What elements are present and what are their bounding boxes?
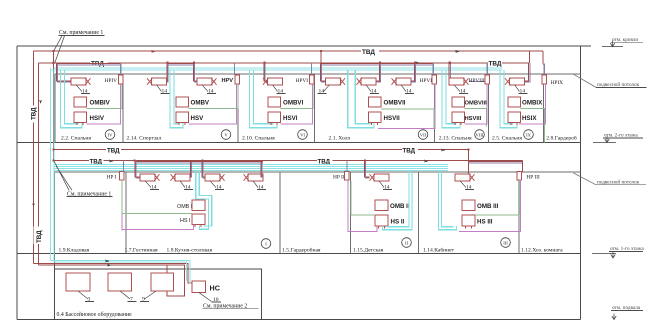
node junction floor1 branch/drop unit I b xyxy=(201,159,203,161)
wire floor-2 room partition IV/V xyxy=(122,74,124,143)
wire floor-2 cyan duct upper xyxy=(54,67,502,69)
wire cyan duct run to HC unit lower xyxy=(54,262,187,281)
node room tag IX xyxy=(524,130,534,140)
wire 2nd floor suspended ceiling line xyxy=(55,73,581,75)
wire TVD floor-1 branch lower segment 1 xyxy=(54,160,89,162)
wire leaders note 1 (top) xyxy=(54,36,65,62)
damper (pos.14) room VII damper 3 xyxy=(396,78,411,85)
wire cyan exhaust duct outer room IX xyxy=(500,70,517,128)
svg-text:OMBV: OMBV xyxy=(191,100,210,107)
svg-text:HP III: HP III xyxy=(526,174,540,180)
wire supply pipe drop room V damper1 xyxy=(165,63,168,81)
node flow arrow basement cyan xyxy=(106,260,111,263)
svg-text:1.5.Гардеробная: 1.5.Гардеробная xyxy=(282,247,321,254)
wire supply pipe drop room VI xyxy=(264,63,268,81)
wire supply drop to damper 4 unit I xyxy=(260,162,262,177)
wire cyan exhaust duct outer room VII xyxy=(348,70,374,128)
heat pipe unit HP III xyxy=(517,172,522,181)
wire HP feed drop HPVII xyxy=(432,63,434,75)
OMB unit box room VI xyxy=(268,97,281,107)
node damper X mark room IV xyxy=(85,78,90,85)
wire underline pos.14 room VII damper 1 xyxy=(318,93,327,95)
node junction branch/drop room V a xyxy=(166,62,168,64)
wire supply pipe drop room V damper2 xyxy=(193,63,197,81)
wire leader to pos.14 room VII damper 1 xyxy=(324,85,330,92)
wire leader to pos.10 xyxy=(199,293,212,302)
OMB unit box room IX xyxy=(508,97,521,107)
svg-text:ОМВ I: ОМВ I xyxy=(177,204,192,210)
wire cyan exhaust duct inner room IV xyxy=(65,70,79,124)
svg-text:2.8.Гардероб: 2.8.Гардероб xyxy=(546,135,577,142)
node elevation arrow floor1 xyxy=(611,252,615,258)
wire cyan exhaust duct inner room VII xyxy=(355,70,370,124)
node junction branch/drop room VIII xyxy=(449,62,451,64)
node flow arrow floor-1 upper branch xyxy=(442,149,447,152)
heat pipe unit HPIX xyxy=(542,75,547,84)
node HS unit legs room IX xyxy=(511,123,517,125)
wire floor-1 room partition 1.15/1.14 xyxy=(417,172,419,254)
wire TVD drop to unit III damper xyxy=(468,150,470,175)
wire floor-1 cyan duct line 3 xyxy=(54,167,448,169)
damper (pos.14) unit III damper xyxy=(455,174,470,181)
wire TVD left riser B (to basement) xyxy=(38,63,40,265)
wire magenta return room VI xyxy=(281,84,313,124)
node HS II legs xyxy=(379,226,385,229)
wire floor-2 room partition IX/wardrobe xyxy=(543,74,545,143)
OMB unit box room VII xyxy=(369,97,382,107)
wire leader to pos.14 room IX xyxy=(515,85,520,92)
wire leader to pos.14 unit I damper 3 xyxy=(210,181,216,188)
svg-text:HSVI: HSVI xyxy=(283,115,298,122)
wire underline suspended ceiling f2 xyxy=(596,86,647,88)
OMB unit box room VIII xyxy=(452,97,465,107)
wire underline pos.14 room IX xyxy=(519,93,528,95)
wire floor-1 room partition 1.9/1.7 xyxy=(125,172,127,254)
node HS unit legs room IV xyxy=(77,123,83,125)
wire cyan duct risers left side xyxy=(51,68,55,262)
svg-text:IX: IX xyxy=(526,132,532,137)
node label gap upper xyxy=(29,106,37,123)
svg-text:НС: НС xyxy=(210,284,220,293)
heat pipe unit HPV xyxy=(235,75,240,84)
node HS unit legs room VII xyxy=(372,123,378,125)
HS unit box room VIII xyxy=(452,112,465,123)
wire building frame left wall xyxy=(16,46,18,320)
heat pipe unit HPIV xyxy=(119,75,124,84)
wire underline pos.7 xyxy=(128,301,137,303)
wire green line room IX xyxy=(521,109,545,143)
wire TVD floor-2 branch duct segment 1 xyxy=(39,62,91,64)
node elevation arrow roof xyxy=(610,41,614,47)
svg-text:HS II: HS II xyxy=(391,218,405,225)
OMB unit box room IV xyxy=(74,97,87,107)
wire magenta return room IX xyxy=(519,84,545,124)
svg-text:2.1. Холл: 2.1. Холл xyxy=(329,136,351,142)
wire green line room VII xyxy=(381,109,434,128)
wire underline see note 2 xyxy=(203,308,259,310)
svg-text:HS III: HS III xyxy=(477,218,493,225)
heat pipe unit HP I xyxy=(119,172,124,181)
svg-text:1.7.Гостинная: 1.7.Гостинная xyxy=(125,248,158,254)
node damper X mark room V damper 2 xyxy=(211,78,216,85)
node flow arrow on riser B xyxy=(39,100,42,104)
wire 1st floor suspended ceiling line xyxy=(55,171,581,173)
wire TVD run to pool plant (loop) xyxy=(39,265,185,296)
node junction branch/drop room VII c xyxy=(414,62,416,64)
damper (pos.14) unit II damper xyxy=(374,174,389,181)
heat pipe unit HP II xyxy=(345,172,350,181)
svg-text:OMBVII: OMBVII xyxy=(384,100,406,107)
node room tag IV xyxy=(105,130,115,140)
damper (pos.14) room VIII xyxy=(449,78,464,85)
wire underline pos.14 room VIII xyxy=(459,93,468,95)
svg-text:HPVIII: HPVIII xyxy=(469,78,485,84)
wire underline pos.14 unit I damper 4 xyxy=(257,189,266,191)
wire underline pos.14 unit I damper 3 xyxy=(215,189,224,191)
node damper X mark room VI xyxy=(263,78,268,85)
damper (pos.14) room V damper 1 xyxy=(152,78,167,85)
svg-text:HS I: HS I xyxy=(180,218,190,224)
wire floor-1 room partition 1.14/1.12 xyxy=(518,172,520,254)
damper (pos.14) room VII damper 2 xyxy=(361,78,376,85)
wire cyan exhaust loop unit II inner xyxy=(386,170,409,226)
node room tag III xyxy=(501,238,511,248)
node junction main duct / drop x321 xyxy=(320,50,322,52)
wire supply drop to damper 2 unit I xyxy=(189,162,191,177)
node damper X mark unit I damper 2 xyxy=(171,174,176,181)
svg-text:1.12.Хоз. комната: 1.12.Хоз. комната xyxy=(521,248,563,254)
wire cyan exhaust loop unit I outer xyxy=(196,170,209,229)
wire condensate/green line room IV xyxy=(87,84,122,108)
node elevation arrow floor2 xyxy=(605,137,609,143)
wire HP feed drop HPVIII xyxy=(486,63,488,75)
svg-text:HSVIII: HSVIII xyxy=(465,116,482,122)
node flow arrow on main duct xyxy=(152,50,157,53)
damper (pos.14) unit I damper 1 xyxy=(140,174,155,181)
wire TVD floor-1 branch upper segment 1 xyxy=(54,149,106,151)
wire supply pipe drop room VII damper1 xyxy=(320,63,325,81)
wire supply pipe header floor-1 right xyxy=(469,161,523,163)
wire basement pool plant room enclosure xyxy=(55,253,262,319)
node junction branch/drop room V b xyxy=(193,62,195,64)
svg-text:HP I: HP I xyxy=(107,174,117,180)
OMB unit box room V xyxy=(176,97,189,107)
wire HP feed drop HPV xyxy=(234,63,236,75)
wire leader to pos.14 room VII damper 3 xyxy=(401,85,406,92)
wire green drop from HP II xyxy=(350,181,352,215)
svg-text:HPIX: HPIX xyxy=(551,80,564,86)
damper (pos.14) room VII damper 1 xyxy=(326,78,341,85)
damper (pos.14) room IX xyxy=(510,78,525,85)
node damper X mark room VIII xyxy=(463,78,468,85)
svg-text:ТВД: ТВД xyxy=(107,147,120,154)
svg-text:OMBIX: OMBIX xyxy=(522,100,543,107)
wire roof level tick line xyxy=(602,46,623,48)
wire TVD drop to HP III xyxy=(521,161,523,173)
wire underline elevation floor2 xyxy=(603,137,643,139)
wire green line unit II xyxy=(351,214,375,216)
node HS unit legs room VIII xyxy=(455,123,461,125)
node damper X mark room VII damper 2 xyxy=(357,78,362,85)
wire leader suspended ceiling f2 xyxy=(574,74,597,87)
wire floor-2 room partition VII/VIII xyxy=(434,74,436,143)
wire floor-1 cyan duct line 2 xyxy=(54,165,448,167)
node room tag V xyxy=(221,130,231,140)
wire leader to pos.3 xyxy=(78,291,88,299)
node flow arrow on main duct right xyxy=(456,50,461,53)
node damper X mark unit I damper 3 xyxy=(219,174,224,181)
svg-text:1.14.Кабинет: 1.14.Кабинет xyxy=(423,247,455,254)
node HS unit legs room VI xyxy=(271,123,277,125)
wire green drop from HP III xyxy=(518,180,520,215)
node room tag VIII xyxy=(475,130,485,140)
HS unit box III xyxy=(462,215,475,226)
wire floor-2 room partition V/VI xyxy=(237,74,239,143)
wire underline pos.14 unit I damper 2 xyxy=(184,189,193,191)
wire building frame top / roof line xyxy=(17,45,591,47)
svg-text:VII: VII xyxy=(420,132,427,137)
wire leader to pos.14 room VI xyxy=(273,85,278,92)
wire cyan exhaust loop unit III inner xyxy=(442,170,454,226)
wire supply drop to damper 1 unit I xyxy=(135,161,140,177)
OMB unit box II xyxy=(375,200,388,211)
wire underline see note 1 (top) xyxy=(59,34,105,36)
wire cyan duct run to HC unit upper xyxy=(51,261,191,284)
pool equipment unit pos.3 xyxy=(66,273,90,291)
damper (pos.14) room VI xyxy=(268,78,283,85)
OMB unit box I xyxy=(192,200,205,211)
svg-text:2.2. Спальня: 2.2. Спальня xyxy=(61,136,91,142)
wire magenta return unit I xyxy=(122,225,194,230)
HS unit box room IX xyxy=(508,112,521,123)
wire floor-2 room partition VI/VII xyxy=(314,74,316,143)
OMB unit box III xyxy=(462,200,475,211)
node damper X mark unit I damper 1 xyxy=(154,174,159,181)
wire supply pipe header room IV xyxy=(57,63,121,65)
wire supply pipe header room VII xyxy=(321,63,433,65)
wire HP feed drop HP I drop xyxy=(123,161,125,172)
wire cyan exhaust duct inner room IX xyxy=(504,70,513,124)
wire leader to pos.14 unit II damper xyxy=(379,181,384,188)
wire underline elevation basement xyxy=(611,310,643,312)
wire underline pos.14 room VII damper 2 xyxy=(370,93,379,95)
node HS III legs xyxy=(466,226,472,229)
node room tag VII xyxy=(418,130,428,140)
HS unit box room IV xyxy=(74,112,87,123)
wire cyan exhaust loop unit II outer xyxy=(383,170,413,229)
wire cyan exhaust duct outer room VI xyxy=(250,70,278,128)
svg-text:HSVII: HSVII xyxy=(384,115,400,122)
wire floor-1 room partition 1.5/1.15 xyxy=(350,172,352,254)
wire leader to pos.14 unit I damper 4 xyxy=(253,181,258,188)
damper (pos.14) room V damper 2 xyxy=(197,78,212,85)
HC unit box xyxy=(192,281,206,293)
wire magenta return room VII xyxy=(378,84,435,128)
wire magenta return room IV xyxy=(87,84,121,124)
wire TVD drop at x=321 xyxy=(320,51,322,63)
wire leader to pos.14 unit I damper 2 xyxy=(180,181,185,188)
wire floor-2 cyan duct lower xyxy=(51,69,503,71)
node flow arrow basement red xyxy=(108,264,113,267)
node junction main duct x54 xyxy=(53,50,55,52)
wire green line room V xyxy=(189,84,238,108)
svg-text:OMB II: OMB II xyxy=(390,203,410,210)
svg-text:2.14. Спортзал: 2.14. Спортзал xyxy=(127,136,162,142)
svg-text:ТВД: ТВД xyxy=(31,107,38,120)
wire cyan exhaust duct inner room VIII xyxy=(446,70,456,124)
node damper X mark unit II damper xyxy=(370,174,375,181)
wire floor2 level tick line xyxy=(593,142,616,144)
wire HP feed drop HP II drop xyxy=(346,161,348,172)
heat pipe unit HPVIII xyxy=(485,75,490,84)
wire underline pos.10 xyxy=(212,301,222,303)
node damper X mark room V damper 1 xyxy=(147,78,152,85)
svg-text:VIII: VIII xyxy=(476,132,484,137)
svg-text:OMB III: OMB III xyxy=(477,203,499,210)
wire cyan exhaust duct outer room V xyxy=(170,70,183,128)
wire cyan exhaust duct outer room IV xyxy=(61,70,83,128)
wire 1st floor slab line xyxy=(17,252,581,254)
wire HP feed drop HPVI xyxy=(311,63,313,75)
wire magenta return room VIII xyxy=(465,84,488,124)
wire cyan exhaust duct inner room V xyxy=(174,70,179,124)
wire supply pipe drop room IV xyxy=(56,63,71,81)
svg-text:2.5. Спальня: 2.5. Спальня xyxy=(492,136,522,142)
wire leader to pos.14 room V damper 1 xyxy=(157,85,162,92)
wire leader to pos.9 xyxy=(145,291,157,299)
wire green line room VIII xyxy=(465,109,487,127)
svg-text:ТВД: ТВД xyxy=(403,147,416,154)
wire leader to pos.14 room VII damper 2 xyxy=(366,85,371,92)
wire floor-1 room partition left xyxy=(54,172,56,254)
node HS unit legs room V xyxy=(179,123,185,125)
wire leader to pos.14 unit I damper 1 xyxy=(145,181,151,188)
wire green drop from HP I xyxy=(121,180,123,214)
wire leader to pos.14 room VIII xyxy=(454,85,460,92)
node room tag VI xyxy=(298,130,308,140)
node flow arrow on floor-2 branch xyxy=(416,61,421,64)
wire cyan exhaust loop unit III outer xyxy=(439,170,457,229)
wire TVD floor-1 branch lower segment 2 xyxy=(104,160,318,162)
wire cyan exhaust duct outer room VIII xyxy=(442,70,460,128)
svg-text:1.9.Кладовая: 1.9.Кладовая xyxy=(59,248,90,254)
wire TVD left riser A (to basement) xyxy=(33,51,35,263)
wire supply pipe to HPIX xyxy=(543,64,544,75)
wire magenta drop unit I xyxy=(121,214,123,231)
svg-text:HSIV: HSIV xyxy=(90,115,105,122)
node junction branch duct x54 xyxy=(53,62,55,64)
node HS I legs xyxy=(195,225,201,227)
wire green line unit III xyxy=(475,214,519,216)
damper (pos.14) room IV xyxy=(71,78,86,85)
wire TVD drop to room IX units xyxy=(529,51,543,64)
pool equipment unit pos.9 xyxy=(151,273,174,291)
node damper X mark room VII damper 3 xyxy=(392,78,397,85)
node room tag I xyxy=(261,239,271,249)
wire TVD floor-2 branch duct segment 3 xyxy=(502,62,529,64)
damper (pos.14) unit I damper 3 xyxy=(205,174,220,181)
wire floor-2 room partition VIII/IX xyxy=(488,74,490,143)
wire TVD run to pool plant (upper) xyxy=(34,263,193,283)
svg-text:0.4 Бассейновое оборудование: 0.4 Бассейновое оборудование xyxy=(57,311,133,318)
svg-text:OMBIV: OMBIV xyxy=(90,100,111,107)
HS unit box room VI xyxy=(268,112,281,123)
wire 2nd floor slab line xyxy=(17,142,581,144)
node junction riser / floor-1 upper branch xyxy=(53,148,55,150)
wire underline pos.9 xyxy=(140,301,149,303)
svg-text:VI: VI xyxy=(300,132,305,137)
wire HP feed drop HPIV xyxy=(120,63,122,75)
svg-text:ТВД: ТВД xyxy=(362,49,375,56)
svg-text:HPIV: HPIV xyxy=(105,78,118,84)
node flow arrow on riser A xyxy=(32,204,35,208)
wire floor-1 cyan duct line 1 xyxy=(54,163,448,165)
wire green line unit I xyxy=(122,213,192,215)
svg-text:OMBVIII: OMBVIII xyxy=(465,101,488,107)
pool equipment unit pos.7 xyxy=(108,273,132,291)
wire underline pos.14 room V damper 2 xyxy=(207,93,216,95)
wire underline elevation floor1 xyxy=(609,251,643,253)
node junction branch/drop room VII b xyxy=(379,62,381,64)
wire leader to pos.14 unit III damper xyxy=(460,181,466,188)
wire leader to pos.7 xyxy=(120,291,130,299)
wire underline suspended ceiling f1 xyxy=(596,184,646,186)
wire TVD main supply duct (roof level) right segment xyxy=(379,50,543,52)
svg-text:ТВД: ТВД xyxy=(36,230,43,243)
wire underline pos.14 room VI xyxy=(277,93,286,95)
wire leader suspended ceiling f1 xyxy=(574,173,597,185)
node flow arrow floor-1 lower branch b xyxy=(425,160,430,163)
wire underline pos.14 room VII damper 3 xyxy=(405,93,414,95)
wire supply pipe header unit I xyxy=(136,161,264,163)
wire magenta return room V xyxy=(189,84,237,124)
svg-text:HPVI: HPVI xyxy=(296,78,309,84)
damper (pos.14) unit I damper 2 xyxy=(175,174,190,181)
wire cyan exhaust duct inner room VI xyxy=(254,70,274,124)
wire supply pipe to HPVIII xyxy=(469,81,485,83)
node elevation arrow basement xyxy=(612,314,616,320)
wire leader to pos.14 room V damper 2 xyxy=(202,85,208,92)
svg-text:2.13. Спальня: 2.13. Спальня xyxy=(439,136,472,142)
wire TVD floor-1 branch upper segment 2 xyxy=(121,149,402,151)
node damper X mark room IX xyxy=(505,78,510,85)
wire TVD floor-1 branch lower segment 3 xyxy=(333,160,523,162)
svg-text:OMBVI: OMBVI xyxy=(283,100,304,107)
wire supply drop to damper 3 unit I xyxy=(202,162,205,177)
node flow arrow floor-1 lower branch xyxy=(110,160,115,163)
wire supply pipe drop room VII damper2 xyxy=(376,63,379,81)
HS unit box I xyxy=(192,214,205,225)
wire TVD riser x=53.6 feeding floor-1 branches xyxy=(53,51,55,161)
wire underline pos.3 xyxy=(85,301,94,303)
heat pipe unit HPVI xyxy=(309,75,314,84)
wire supply pipe header room V xyxy=(167,63,195,65)
svg-text:HSV: HSV xyxy=(191,115,205,122)
node junction riser / floor-1 lower branch xyxy=(53,159,55,161)
wire supply pipe drop room VII damper3 xyxy=(411,63,414,81)
HS unit box room V xyxy=(176,112,189,123)
wire floor-1 cyan duct line 4 xyxy=(54,169,448,171)
wire underline pos.14 room V damper 1 xyxy=(161,93,170,95)
node label gap lower xyxy=(34,227,42,245)
wire supply pipe drop room IX xyxy=(525,63,529,81)
wire supply pipe drop room VIII xyxy=(448,63,450,78)
wire underline pos.14 room IV xyxy=(81,93,90,95)
wire underline see note 1 (floor1) xyxy=(67,196,113,198)
svg-text:1.8.Кухня-столовая: 1.8.Кухня-столовая xyxy=(167,248,213,254)
node junction floor1 branch/drop unit I xyxy=(133,159,135,161)
wire building frame bottom / basement floor xyxy=(17,319,581,321)
